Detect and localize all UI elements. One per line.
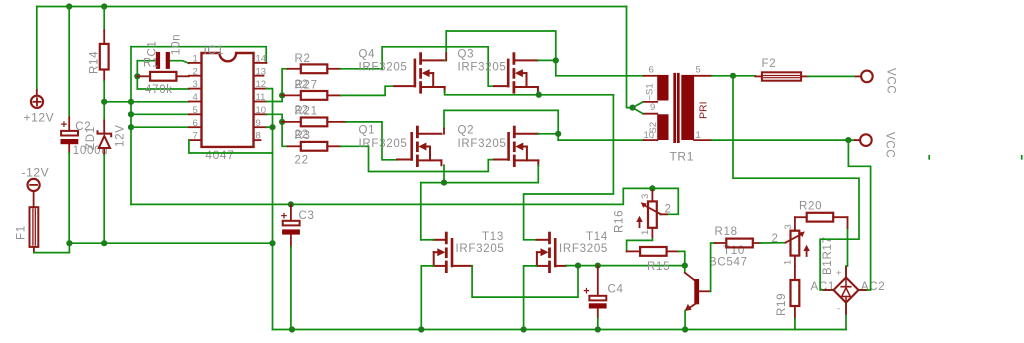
resistor R2 22	[288, 53, 341, 73]
wire: pin 6	[131, 126, 189, 128]
svg-text:R14: R14	[89, 51, 101, 74]
node: junction T13 gate riser on gate bus	[575, 263, 581, 269]
svg-text:13: 13	[256, 66, 267, 77]
svg-text:-: -	[837, 304, 840, 315]
svg-text:14: 14	[256, 54, 267, 65]
svg-text:1: 1	[193, 54, 198, 65]
wire: left ground rail	[69, 242, 272, 244]
wire: T10 base up to R18	[711, 243, 715, 291]
wire: Q3 drain to drains node	[538, 59, 556, 61]
svg-text:~S2: ~S2	[648, 122, 659, 139]
adjust arrow	[806, 249, 808, 256]
node: junction pin4 row on x=131	[128, 99, 134, 105]
node: junction T14 source on ground rail	[521, 326, 527, 332]
zener diode D1 12V	[85, 121, 127, 156]
wire: VDD top link to pin 14	[131, 47, 266, 63]
wire: bridge - to ground rail	[845, 303, 847, 330]
resistor R18	[715, 226, 761, 247]
wire: Q4 drain up and over to drains node	[445, 31, 556, 60]
terminal VCC (top)	[856, 68, 897, 94]
wire: pin 4	[104, 101, 189, 103]
supply +12V terminal	[24, 90, 55, 124]
svg-text:VCC: VCC	[884, 132, 896, 158]
node: junction T10 emitter on ground rail	[682, 326, 688, 332]
pin 1 lead	[694, 139, 712, 141]
node: junction C3 on VDD rail	[288, 201, 294, 207]
wire: D1 top lead	[103, 102, 105, 121]
wire: long VDD rail to R16 (bottom middle)	[131, 188, 652, 204]
resistor R1 470k	[137, 58, 189, 97]
wire: R2 to Q3 gate (over the top)	[340, 47, 494, 86]
svg-text:22: 22	[295, 155, 309, 167]
transistor Q4 IRF3205	[359, 49, 445, 93]
IC1 4047 body	[202, 43, 254, 162]
trimmer R16	[614, 185, 679, 238]
svg-text:IRF3205: IRF3205	[559, 243, 608, 255]
svg-text:-12V: -12V	[22, 166, 50, 180]
winding S2	[657, 114, 668, 140]
node: junction R14 on top rail	[101, 3, 107, 9]
node: junction C2 on top rail	[66, 3, 72, 9]
svg-text:1: 1	[783, 260, 794, 265]
stray mark right	[1021, 156, 1023, 159]
wire: D1 bottom to ground rail	[103, 155, 105, 243]
node: junction Q3/Q4 drains	[553, 57, 559, 63]
svg-text:R2: R2	[295, 53, 311, 65]
wire: top rail riser to TR1 center tap	[627, 7, 633, 108]
wire: Q3 source riser	[538, 91, 540, 94]
wire: upper source bus down to T14 drain	[524, 95, 614, 240]
wire: R16 pin1 to R15	[627, 239, 653, 252]
svg-text:9: 9	[256, 118, 261, 129]
svg-text:R3: R3	[295, 130, 311, 142]
node: TR1 center tap	[629, 105, 635, 111]
wire: pin 9 link	[267, 126, 273, 128]
svg-text:T14: T14	[586, 231, 608, 243]
IC1 pin numbers	[193, 54, 267, 142]
wire: R19 bottom to ground rail	[794, 318, 796, 329]
svg-text:PRI: PRI	[698, 101, 710, 119]
node: junction F1/C2 ground	[66, 240, 72, 246]
resistor R19	[776, 266, 799, 318]
node: junction ground rail to pins 12/9/7 vertical	[269, 240, 275, 246]
wire: T13 drain lead link	[421, 239, 434, 241]
svg-text:~S1: ~S1	[645, 83, 656, 100]
svg-text:R1: R1	[143, 58, 159, 70]
svg-text:TR1: TR1	[670, 150, 694, 164]
wire: T13 source to ground rail	[421, 266, 433, 330]
svg-text:2: 2	[193, 66, 198, 77]
wire: drains node to TR1 pin 6	[556, 60, 644, 75]
wire: Q4 source to upper source bus	[445, 91, 614, 95]
wire: C1 left plate lead	[137, 60, 156, 62]
svg-text:Q3: Q3	[458, 49, 475, 61]
svg-text:9: 9	[650, 102, 655, 113]
node: junction R14/D1/pin4	[101, 99, 107, 105]
svg-text:F1: F1	[16, 225, 28, 240]
svg-text:2: 2	[772, 233, 779, 245]
svg-text:12: 12	[256, 79, 267, 90]
wire: R20 right down to bridge +	[846, 228, 848, 278]
svg-text:R19: R19	[776, 293, 788, 316]
wire: pin 5	[131, 113, 189, 115]
svg-text:6: 6	[649, 65, 654, 76]
wire: Q1 source to lower source bus	[443, 165, 445, 182]
svg-text:IC1: IC1	[204, 43, 224, 57]
wire: T14 source to ground rail	[524, 266, 537, 330]
wire: TR1 pin 1 to VCC terminal 2	[712, 139, 855, 141]
adjust arrow	[639, 220, 641, 227]
winding PRI	[681, 75, 694, 140]
fuse F2	[755, 58, 808, 81]
wire: node down to T10 collector	[684, 266, 686, 273]
wire: pin 11 to gate resistor column	[267, 69, 288, 102]
wire: C2 bottom lead to ground rail	[68, 153, 70, 243]
node: junction pin 9	[269, 124, 275, 130]
wire: R27 to Q4 gate	[341, 86, 394, 95]
capacitor C3 electrolytic	[281, 204, 315, 246]
wire: +12V top rail	[37, 6, 627, 8]
IC1 left pin stubs 1-7	[189, 63, 202, 140]
svg-text:+12V: +12V	[24, 111, 55, 125]
svg-text:10n: 10n	[171, 34, 183, 55]
node: junction C4 on gate bus	[595, 263, 601, 269]
svg-text:5: 5	[193, 105, 198, 116]
wire: lower drains node to TR1 pin 10	[558, 139, 643, 141]
node: junction R16 pin3/wiper	[649, 185, 655, 191]
svg-text:F2: F2	[762, 58, 777, 70]
svg-text:5: 5	[696, 65, 701, 76]
node: junction R1 left on C1 vertical	[134, 73, 140, 79]
node: junction Q3 source on source bus	[536, 92, 542, 98]
svg-text:IRF3205: IRF3205	[458, 62, 507, 74]
capacitor C4 electrolytic	[583, 266, 623, 318]
svg-text:IRF3205: IRF3205	[458, 138, 507, 150]
core lines	[673, 74, 676, 141]
stray mark left	[928, 156, 930, 159]
node: junction Q1/Q2 drains	[555, 131, 561, 137]
svg-text:4047: 4047	[205, 148, 234, 162]
wire: R14 bottom to VDD node	[103, 81, 105, 102]
svg-text:Q2: Q2	[458, 125, 475, 137]
node: junction D1 ground	[101, 240, 107, 246]
svg-text:6: 6	[193, 118, 198, 129]
svg-text:8: 8	[256, 131, 261, 142]
capacitor C2 1000u electrolytic	[61, 118, 109, 158]
wire: +12V supply drop	[36, 7, 38, 91]
svg-text:11: 11	[256, 92, 266, 103]
wire: AC2 sense from TR1 pin1 node	[848, 140, 870, 290]
node: junction pin10 / R21 feed	[279, 119, 285, 125]
pin 10 lead	[644, 139, 658, 141]
transistor Q1 IRF3205	[359, 125, 442, 166]
wire: F1 to ground rail	[34, 243, 70, 252]
svg-text:4: 4	[193, 92, 198, 103]
wire: C1 right plate to pin 1 (diagonal)	[170, 61, 189, 64]
wire: T10 emitter to ground rail	[684, 311, 686, 330]
wire: lower source bus	[421, 165, 539, 182]
svg-text:AC1: AC1	[811, 281, 835, 293]
svg-text:1: 1	[696, 130, 701, 141]
svg-text:C1: C1	[147, 40, 159, 56]
wire: C4 bottom to ground rail	[597, 318, 599, 330]
svg-text:Q4: Q4	[359, 49, 376, 61]
wire: VDD net vertical (pins 4,5,6 / pin 14 riser)	[130, 47, 132, 205]
wire: R18 right to R17 wiper	[760, 242, 785, 244]
svg-text:12V: 12V	[115, 124, 127, 147]
svg-text:IRF3205: IRF3205	[359, 138, 408, 150]
svg-text:2: 2	[665, 204, 672, 216]
wire: pin 10 to gate resistor column	[267, 114, 288, 146]
svg-text:3: 3	[783, 224, 794, 229]
transistor Q2 IRF3205	[458, 125, 539, 166]
wire: ground rail (bottom)	[273, 329, 847, 331]
wire: Q2 drain to lower drains node	[538, 133, 558, 135]
wire: TR1 pin 5 to F2 node	[712, 75, 756, 77]
terminal VCC (bottom)	[855, 132, 896, 158]
capacitor C1 10n	[147, 34, 183, 69]
transistor Q3 IRF3205	[458, 49, 538, 93]
node: junction gate bus / R15 / T10 collector	[682, 263, 688, 269]
resistor R21 22 (value of R27 overlaps name)	[282, 105, 346, 127]
svg-text:R20: R20	[799, 201, 822, 213]
resistor R15	[627, 247, 679, 273]
transformer TR1	[629, 65, 711, 164]
resistor R20	[795, 201, 848, 222]
svg-text:+: +	[61, 119, 67, 131]
wire: gate bus	[566, 265, 685, 267]
svg-text:BC547: BC547	[709, 257, 748, 269]
svg-text:1: 1	[640, 230, 651, 235]
wire: lower source bus down to T13 drain	[420, 183, 422, 240]
resistor R3 22 (value of R21 overlaps name)	[288, 129, 341, 166]
node: junction pin5 / F2 / AC1 sense	[730, 73, 736, 79]
node: junction pin5 row on x=131	[128, 111, 134, 117]
IC1 right pin stubs 8-14	[254, 63, 267, 140]
svg-text:R15: R15	[647, 261, 670, 273]
svg-text:IRF3205: IRF3205	[456, 243, 505, 255]
svg-text:B1R17: B1R17	[822, 236, 834, 275]
svg-text:R21: R21	[295, 105, 318, 117]
wire: R14 top lead from rail	[103, 7, 105, 31]
wire: pin 7 to ground vertical	[189, 140, 273, 153]
wire: R15 right to gate bus node	[679, 251, 685, 265]
wire: C3 bottom to ground rail	[290, 247, 292, 330]
svg-text:ZD1: ZD1	[85, 126, 97, 150]
svg-text:Q1: Q1	[359, 125, 376, 137]
transistor T14 IRF3205 (mirrored)	[537, 231, 609, 272]
svg-text:7: 7	[193, 131, 198, 142]
node: junction C3 on ground rail	[289, 326, 295, 332]
svg-text:AC2: AC2	[861, 281, 885, 293]
svg-text:IRF3205: IRF3205	[359, 62, 408, 74]
fuse F1	[16, 207, 39, 252]
svg-text:VCC: VCC	[885, 68, 897, 94]
wiper loop to pin 2	[652, 188, 678, 214]
resistor R27 22 (value of R2 overlaps name)	[282, 79, 341, 100]
svg-text:R18: R18	[715, 226, 738, 238]
node: junction C4 on ground rail	[595, 326, 601, 332]
svg-text:R16: R16	[614, 210, 626, 233]
node: junction pin1 / AC2 sense	[845, 137, 851, 143]
wire: Q1 drain up and over to lower drains node	[444, 110, 558, 140]
wire: pin 12 / pin 9 ground vertical	[267, 89, 273, 330]
resistor R14	[89, 30, 109, 81]
transistor T10 BC547	[685, 245, 748, 311]
pin 9 leads / center tap diagonals	[643, 101, 657, 103]
svg-text:3: 3	[640, 194, 651, 199]
winding S1	[657, 75, 668, 101]
transistor T13 IRF3205 (mirrored)	[433, 231, 504, 272]
svg-text:C4: C4	[608, 284, 624, 296]
svg-text:10: 10	[256, 105, 267, 116]
wire: AC1 sense from TR1 pin5 node	[733, 76, 859, 290]
wire: C2 top lead	[68, 7, 70, 118]
pin 5 lead	[694, 75, 712, 77]
wire: T13 gate down and over to gate bus	[472, 266, 578, 298]
bridge rectifier B1	[811, 236, 886, 314]
svg-text:T13: T13	[482, 231, 504, 243]
svg-text:C3: C3	[299, 210, 315, 222]
wire: R21 to Q1 gate	[346, 122, 397, 160]
node: junction pin11 / R27 feed	[279, 92, 285, 98]
svg-text:R27: R27	[295, 80, 318, 92]
wire: F2 to VCC terminal 1	[808, 75, 856, 77]
wire: C1/R1 left vertical to pin 3	[137, 61, 189, 89]
trimmer R17	[772, 217, 810, 266]
wire: R3 to Q2 gate (under)	[341, 146, 495, 171]
node: junction T13 source on ground rail	[418, 326, 424, 332]
supply -12V terminal	[22, 166, 50, 208]
pin 6 lead	[644, 75, 658, 77]
svg-text:+: +	[836, 268, 842, 279]
svg-text:3: 3	[193, 79, 198, 90]
node: junction pin6 row on x=131	[128, 124, 134, 130]
svg-text:470k: 470k	[145, 84, 173, 96]
node: junction Q1 source on bus	[441, 180, 447, 186]
